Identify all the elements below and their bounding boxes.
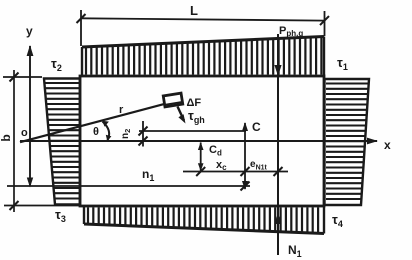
angle theta arc <box>93 121 111 141</box>
y axis <box>26 24 33 188</box>
dimension L <box>77 3 330 46</box>
dimension line x_c and e_N1t <box>183 167 288 176</box>
line to point C <box>139 130 246 132</box>
main cross-section rectangle <box>80 76 324 206</box>
svg-text:θ: θ <box>93 126 99 138</box>
svg-text:x: x <box>384 138 391 152</box>
left shear stress strip (tau2/tau3) <box>44 79 80 205</box>
svg-text:y: y <box>26 24 33 38</box>
x axis <box>20 138 391 152</box>
svg-text:r: r <box>119 104 124 116</box>
shear arrow tau_gh <box>178 107 205 126</box>
svg-text:o: o <box>21 127 28 139</box>
dimension b (left) <box>0 70 79 212</box>
dimension n_2 <box>120 121 148 147</box>
force N1 (up arrow at bottom) <box>274 213 301 259</box>
element Delta F (small box) <box>163 93 201 109</box>
svg-text:b: b <box>0 134 13 141</box>
top distributed load strip <box>82 37 324 76</box>
dimension C_d <box>198 142 222 171</box>
bottom reaction strip <box>84 207 324 234</box>
force P_ph,q (vertical line with down arrow) <box>274 25 303 255</box>
svg-text:L: L <box>190 3 198 18</box>
radius line r <box>20 104 164 142</box>
vertical line through C <box>242 122 248 190</box>
svg-text:C: C <box>252 120 261 134</box>
dimension n_1 <box>7 167 250 191</box>
right shear stress strip (tau1/tau4) <box>325 79 370 205</box>
